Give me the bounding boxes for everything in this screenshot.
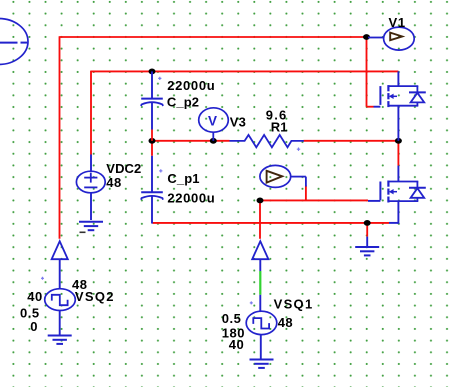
source VSQ2: [45, 259, 76, 335]
junction at V3 probe: [210, 138, 217, 144]
wire segment below triangle (blue): [259, 259, 261, 271]
label 0.5 (VSQ2): [20, 305, 40, 320]
svg-text:C_p1: C_p1: [167, 171, 199, 186]
label 48 (VSQ2): [72, 277, 87, 292]
svg-text:0.5: 0.5: [222, 311, 242, 326]
capacitor C_p2: [141, 71, 163, 140]
svg-text:40: 40: [229, 337, 244, 352]
label 48 (VDC2): [106, 175, 121, 190]
wire bottom net: [152, 222, 389, 224]
svg-text:VSQ2: VSQ2: [75, 289, 115, 304]
probe V1: [368, 27, 414, 50]
wire upper rail to MOSFET drain: [91, 70, 398, 72]
label 40 (VSQ1): [229, 337, 244, 352]
svg-text:V3: V3: [230, 114, 246, 129]
wire lower gate net: [260, 199, 368, 201]
label C_p1: [167, 171, 199, 186]
label C_p2: [167, 94, 199, 109]
wire between MOSFETs: [397, 141, 399, 166]
label VSQ2: [75, 289, 115, 304]
wire V1 branch vertical: [367, 37, 374, 107]
polarity mark VSQ2: [41, 277, 44, 280]
label VDC2: [106, 161, 141, 176]
label 48 (VSQ1): [278, 315, 293, 330]
junction at lower gate: [257, 198, 264, 204]
svg-text:R1: R1: [271, 120, 288, 135]
wire midpoint left segment: [152, 140, 230, 142]
svg-text:22000u: 22000u: [167, 191, 215, 206]
ground at bottom net: [355, 237, 379, 256]
svg-text:VSQ1: VSQ1: [274, 297, 314, 312]
junction at C_p2 top: [149, 69, 156, 75]
svg-text:48: 48: [278, 315, 293, 330]
wire top net from VSQ2 column to V1 junction: [60, 36, 367, 38]
label 180 (VSQ1): [222, 325, 245, 340]
minus mark above VSQ2: [80, 231, 86, 233]
wire bottom ground stub: [366, 223, 368, 237]
label R1: [271, 120, 288, 135]
junction at V1: [363, 34, 370, 40]
svg-text:C_p2: C_p2: [167, 94, 199, 109]
polarity mark VSQ1: [250, 301, 253, 304]
label 40 (VSQ2): [27, 289, 42, 304]
gating block triangle (VSQ2): [52, 241, 68, 259]
junction at half-bridge midpoint: [395, 138, 402, 144]
partial meter symbol at left edge: [0, 19, 28, 65]
label 0 (VSQ2): [30, 319, 38, 334]
label 0.5 (VSQ1): [222, 311, 242, 326]
svg-text:22000u: 22000u: [167, 78, 215, 93]
junction at C_p1 / midpoint: [149, 138, 156, 144]
wire C_p1 top stub: [151, 141, 153, 156]
wire left vertical down to VSQ2 gating triangle: [59, 36, 61, 239]
svg-text:VDC2: VDC2: [106, 161, 141, 176]
gating block triangle (VSQ1): [252, 241, 268, 259]
label VSQ1: [274, 297, 314, 312]
svg-text:48: 48: [106, 175, 121, 190]
junction at bottom ground: [364, 220, 371, 226]
MOSFET lower with body diode: [368, 166, 426, 224]
wire green control segment: [259, 271, 261, 295]
ground below VSQ2: [48, 336, 72, 344]
MOSFET upper with body diode: [374, 71, 426, 140]
label 22000u (C_p1): [167, 191, 215, 206]
svg-text:0: 0: [30, 319, 38, 334]
label 9.6: [266, 107, 288, 122]
resistor R1: [230, 135, 304, 151]
probe ammeter at lower gate: [260, 165, 306, 187]
wire VSQ1 gating stub: [259, 200, 261, 238]
ground below VDC2: [79, 222, 103, 230]
ground below VSQ1: [250, 360, 274, 368]
label V1: [389, 15, 406, 30]
voltmeter V3: [199, 108, 229, 141]
svg-text:V1: V1: [389, 15, 406, 30]
label 22000u (C_p2): [167, 78, 215, 93]
svg-text:V: V: [208, 113, 217, 128]
source VSQ1: [246, 295, 277, 359]
wire VDC2 positive stub: [90, 71, 92, 155]
capacitor C_p1: [141, 156, 163, 224]
wire ammeter branch: [305, 186, 307, 201]
label V3: [230, 114, 246, 129]
wire midpoint right segment to half-bridge: [304, 140, 399, 142]
source VDC2: [76, 155, 105, 221]
svg-text:40: 40: [27, 289, 42, 304]
